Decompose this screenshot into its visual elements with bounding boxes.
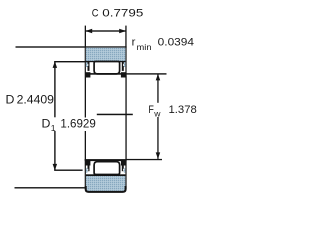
bearing upper section: needle roller bbox=[94, 62, 120, 74]
dimension line Fw (vertical with arrows) bbox=[156, 74, 161, 159]
dimension line C with arrows bbox=[85, 29, 126, 33]
svg-text:2.4409: 2.4409 bbox=[17, 93, 55, 107]
dimension line D1 (vertical with arrows) bbox=[53, 61, 58, 170]
bearing lower section: right rib bbox=[122, 165, 126, 173]
bearing upper section: right cage end bbox=[121, 72, 126, 77]
bore silhouette right edge bbox=[125, 76, 126, 160]
extension line Fw top (from bearing to right) bbox=[126, 73, 166, 74]
svg-text:1.378: 1.378 bbox=[169, 104, 197, 116]
extension line C left bbox=[85, 26, 86, 47]
bearing upper section: outer ring steel (hatched blue) bbox=[86, 48, 126, 61]
bearing upper section: outer ring top edge bbox=[85, 46, 127, 48]
bearing lower section: outer ring steel (hatched blue) bbox=[86, 176, 126, 191]
bearing lower section: needle roller bbox=[94, 162, 120, 175]
bearing lower section: left rib bbox=[86, 165, 90, 173]
svg-text:w: w bbox=[153, 109, 161, 119]
centerline segment (short horizontal mark) bbox=[97, 114, 133, 116]
svg-text:1.6929: 1.6929 bbox=[60, 117, 96, 131]
bearing upper section: raceway line Fw bbox=[90, 73, 123, 75]
extension line D1 top bbox=[54, 61, 89, 62]
bearing lower section: right cage end bbox=[121, 161, 126, 166]
label D1 text bbox=[42, 117, 96, 133]
svg-text:r: r bbox=[132, 36, 136, 48]
svg-text:F: F bbox=[148, 104, 154, 116]
bearing lower section: right face bbox=[125, 159, 126, 189]
svg-text:D: D bbox=[6, 93, 15, 107]
bearing upper section: left cage end bbox=[85, 72, 90, 77]
svg-text:1: 1 bbox=[51, 123, 56, 133]
bearing lower section: outer surface bottom line (rounded corners) bbox=[85, 186, 127, 193]
svg-text:D: D bbox=[42, 117, 51, 131]
extension line C right bbox=[125, 26, 126, 47]
bearing upper section: outer ring bore line bbox=[86, 61, 126, 62]
bearing lower section: left face bbox=[85, 159, 86, 189]
label r_min text bbox=[132, 36, 194, 52]
bearing upper section: outer ring right face bbox=[125, 46, 126, 75]
bearing upper section: outer ring left face bbox=[85, 46, 86, 75]
extension line D1 bottom bbox=[54, 170, 82, 171]
bearing upper section: left rib bbox=[86, 62, 90, 71]
bearing lower section: left cage end bbox=[85, 161, 90, 166]
extension line D bottom bbox=[15, 187, 85, 188]
extension line D top (outer surface, extends left) bbox=[16, 46, 85, 47]
bearing upper section: right rib bbox=[122, 62, 126, 71]
extension line Fw bottom bbox=[126, 159, 162, 160]
label Fw text bbox=[148, 104, 196, 118]
bearing lower section: raceway top line bbox=[86, 174, 126, 176]
svg-text:0.7795: 0.7795 bbox=[102, 7, 143, 19]
bore silhouette left edge bbox=[85, 76, 86, 160]
svg-text:min: min bbox=[137, 42, 152, 52]
bearing lower section: bore line bbox=[85, 159, 127, 161]
svg-text:0.0394: 0.0394 bbox=[158, 37, 194, 49]
svg-text:C: C bbox=[92, 7, 99, 19]
